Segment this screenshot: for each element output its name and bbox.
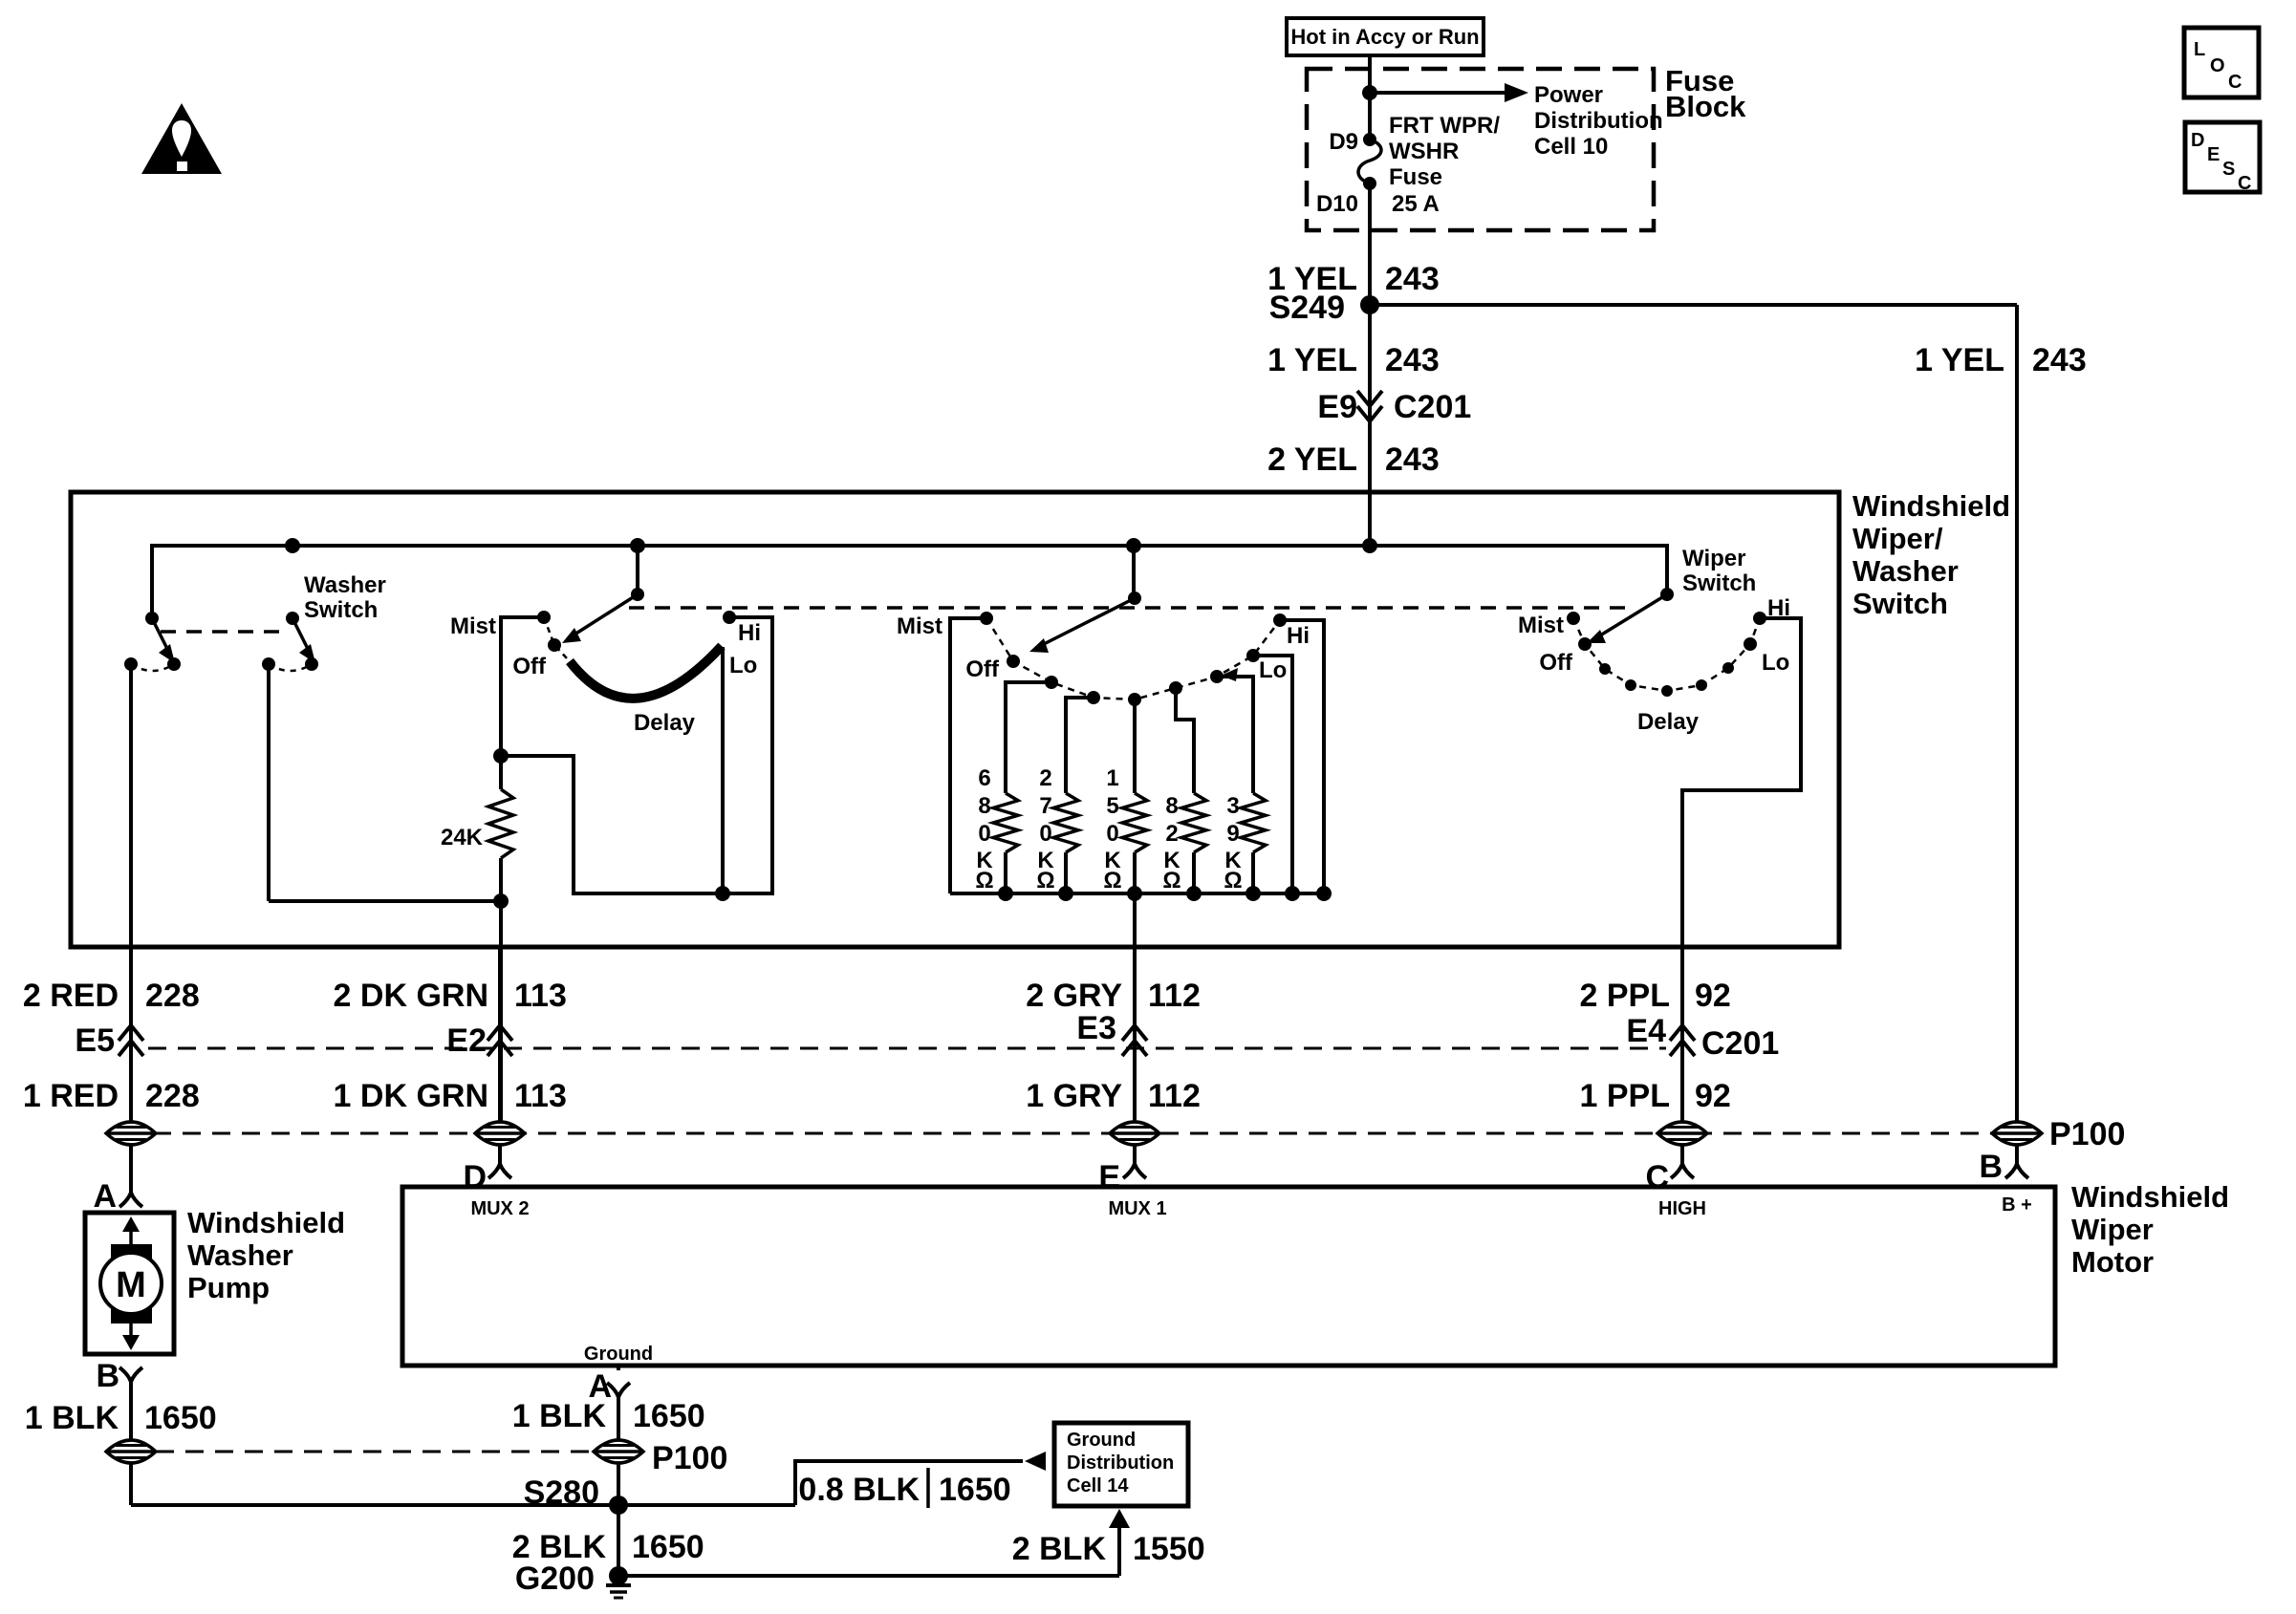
contact Mist <box>980 612 993 625</box>
svg-text:MUX 2: MUX 2 <box>470 1198 529 1219</box>
svg-text:Ω: Ω <box>975 868 993 893</box>
svg-text:2: 2 <box>1039 765 1051 791</box>
svg-text:Windshield: Windshield <box>2071 1180 2229 1214</box>
resistor 680K ohm <box>1045 676 1058 689</box>
svg-text:Washer: Washer <box>304 572 386 598</box>
svg-text:Ω: Ω <box>1103 868 1121 893</box>
svg-text:Lo: Lo <box>729 653 757 678</box>
node: bus tap supply entry <box>1362 538 1377 553</box>
node: junction in fuse block <box>1362 85 1377 100</box>
svg-text:HIGH: HIGH <box>1658 1198 1706 1219</box>
arrowhead into Ground Distribution Cell 14 <box>1025 1452 1046 1471</box>
svg-text:D: D <box>2191 130 2204 151</box>
svg-text:Pump: Pump <box>187 1271 270 1304</box>
wiper arm <box>574 594 638 635</box>
contact Lo <box>1246 649 1260 662</box>
svg-text:E3: E3 <box>1076 1010 1116 1046</box>
svg-text:Washer: Washer <box>187 1238 293 1272</box>
svg-text:Wiper/: Wiper/ <box>1852 522 1943 555</box>
svg-text:Off: Off <box>965 656 1000 682</box>
wire from Hot in Accy or Run down to fuse <box>1368 55 1372 140</box>
svg-text:D9: D9 <box>1329 129 1358 155</box>
svg-text:2 DK GRN: 2 DK GRN <box>334 978 488 1014</box>
svg-text:1 BLK: 1 BLK <box>512 1398 607 1434</box>
resistor 270K ohm <box>1087 691 1100 704</box>
svg-text:E: E <box>1098 1159 1120 1195</box>
svg-text:Mist: Mist <box>450 613 496 639</box>
svg-text:2 GRY: 2 GRY <box>1026 978 1122 1014</box>
svg-text:C201: C201 <box>1394 389 1471 425</box>
svg-text:Wiper: Wiper <box>1682 546 1745 571</box>
node: 24K bottom junction <box>493 893 509 909</box>
svg-text:Mist: Mist <box>1518 613 1564 638</box>
svg-text:Ground: Ground <box>584 1344 653 1365</box>
svg-text:6: 6 <box>978 765 990 791</box>
contact Off <box>548 638 561 652</box>
svg-text:Ground: Ground <box>1067 1430 1136 1451</box>
contact Off <box>1007 655 1020 668</box>
contact Mist <box>1567 612 1580 625</box>
svg-text:2 RED: 2 RED <box>23 978 119 1014</box>
connector C201 pin E9 (double chevron down) <box>1357 391 1382 406</box>
svg-text:G200: G200 <box>515 1560 595 1597</box>
svg-text:MUX 1: MUX 1 <box>1108 1198 1166 1219</box>
left wiper switch (delay band) <box>636 546 639 594</box>
svg-text:Wiper: Wiper <box>2071 1213 2154 1246</box>
svg-text:Hot in Accy or Run: Hot in Accy or Run <box>1290 25 1479 49</box>
fuse block dashed outline <box>1307 69 1654 230</box>
mechanical link between washer poles (dashed) <box>161 630 285 634</box>
svg-text:8: 8 <box>1165 793 1178 819</box>
contact Hi <box>723 611 736 624</box>
motor pin wires through P100 <box>498 947 502 1122</box>
svg-text:E5: E5 <box>75 1022 115 1059</box>
svg-text:2 PPL: 2 PPL <box>1580 978 1670 1014</box>
svg-text:Off: Off <box>512 654 547 679</box>
svg-text:Block: Block <box>1665 90 1746 123</box>
svg-text:Ω: Ω <box>1036 868 1054 893</box>
wire: pump B to P100 <box>129 1440 133 1505</box>
pump motor symbol <box>129 1222 133 1345</box>
svg-text:Power: Power <box>1534 82 1603 108</box>
dashed line C201 <box>148 1047 1666 1050</box>
connector P100 lens at x=1760 <box>1657 1122 1707 1145</box>
svg-text:E2: E2 <box>446 1022 487 1059</box>
wire: Mist to bottom rail <box>950 618 986 893</box>
washer switch pole 1 <box>145 612 159 625</box>
svg-text:S249: S249 <box>1269 290 1345 326</box>
LOC reference box <box>2184 28 2259 97</box>
svg-text:243: 243 <box>1385 441 1440 478</box>
contact Mist <box>537 611 551 624</box>
resistor 24K <box>488 789 513 858</box>
mechanical link dashed line across wiper switches <box>629 606 1627 610</box>
svg-text:5: 5 <box>1106 793 1118 819</box>
connector P100 lens at x=1187 <box>1110 1122 1159 1145</box>
svg-text:Delay: Delay <box>634 710 696 736</box>
svg-text:B: B <box>96 1358 119 1394</box>
svg-text:1 DK GRN: 1 DK GRN <box>334 1078 488 1114</box>
svg-text:Hi: Hi <box>738 620 761 646</box>
svg-text:0: 0 <box>1039 821 1051 847</box>
svg-text:1 PPL: 1 PPL <box>1580 1078 1670 1114</box>
svg-text:1: 1 <box>1106 765 1118 791</box>
svg-text:1 YEL: 1 YEL <box>1267 342 1357 378</box>
svg-text:Delay: Delay <box>1637 709 1700 735</box>
svg-text:Distribution: Distribution <box>1067 1453 1174 1474</box>
svg-text:112: 112 <box>1148 1078 1201 1114</box>
svg-text:3: 3 <box>1226 793 1239 819</box>
wire: motor ground A down <box>617 1366 620 1370</box>
wire: Lo contact down <box>721 647 725 893</box>
svg-text:1550: 1550 <box>1133 1531 1205 1567</box>
wire: Hi contact to HIGH output (2 PPL) <box>1682 618 1801 1122</box>
svg-text:A: A <box>93 1178 117 1215</box>
svg-text:E9: E9 <box>1317 389 1357 425</box>
svg-text:1 YEL: 1 YEL <box>1915 342 2004 378</box>
wire: internal supply bus <box>152 546 1667 618</box>
svg-text:2 YEL: 2 YEL <box>1267 441 1357 478</box>
component box: Windshield Wiper Motor <box>402 1187 2055 1366</box>
svg-text:Fuse: Fuse <box>1389 164 1442 190</box>
wiper arm <box>1044 598 1135 644</box>
svg-text:O: O <box>2210 55 2225 76</box>
svg-text:92: 92 <box>1695 1078 1731 1114</box>
connector P100 (bottom) <box>156 1451 593 1453</box>
svg-text:243: 243 <box>2032 342 2087 378</box>
node: bus tap washer switch 2 <box>285 538 300 553</box>
svg-text:Ω: Ω <box>1162 868 1180 893</box>
component box: Windshield Wiper/Washer Switch <box>71 492 1839 947</box>
MUX1 wiper switch <box>1132 546 1136 598</box>
svg-text:C: C <box>2238 173 2251 194</box>
svg-text:1 RED: 1 RED <box>23 1078 119 1114</box>
svg-text:0: 0 <box>1106 821 1118 847</box>
bottom rail of MUX1 resistors <box>950 892 1324 895</box>
wire: washer sw2 output to 24K bottom <box>267 664 271 901</box>
svg-text:1650: 1650 <box>632 1529 704 1565</box>
svg-text:113: 113 <box>514 1078 567 1114</box>
svg-text:8: 8 <box>978 793 990 819</box>
svg-text:1 BLK: 1 BLK <box>25 1400 119 1436</box>
svg-text:Distribution: Distribution <box>1534 108 1663 134</box>
svg-text:B +: B + <box>2002 1194 2032 1216</box>
wire: S249 to right branch <box>1370 303 2017 307</box>
node: bus tap MUX1 switch <box>1126 538 1141 553</box>
svg-text:M: M <box>116 1265 146 1305</box>
svg-text:Lo: Lo <box>1762 650 1789 676</box>
component box: Windshield Washer Pump <box>85 1213 174 1354</box>
node: Lo rail junction <box>715 886 730 901</box>
wiper arm <box>1600 594 1667 635</box>
wire: junction to Hi/Lo rail <box>501 617 772 893</box>
fuse FRT WPR/WSHR 25 A between pins D9 and D10 <box>1363 133 1376 146</box>
svg-text:P100: P100 <box>2049 1116 2125 1152</box>
svg-text:Lo: Lo <box>1259 657 1287 683</box>
svg-text:B: B <box>1979 1149 2003 1185</box>
svg-text:L: L <box>2194 39 2205 60</box>
svg-text:25 A: 25 A <box>1392 191 1440 217</box>
svg-text:E: E <box>2207 144 2220 165</box>
wire: washer sw1 output (2 RED) <box>129 664 133 1122</box>
wire: output 2 GRY <box>1133 893 1137 1122</box>
svg-text:1650: 1650 <box>144 1400 217 1436</box>
contact Lo <box>1744 637 1757 651</box>
dashed selector arc <box>986 618 1280 699</box>
svg-text:1650: 1650 <box>939 1472 1011 1508</box>
right wiper switch (HIGH) <box>1660 588 1674 601</box>
resistor 150K ohm <box>1128 693 1141 706</box>
resistor 39K ohm <box>1210 670 1224 683</box>
svg-text:Mist: Mist <box>897 613 942 639</box>
svg-text:C: C <box>1645 1159 1669 1195</box>
svg-text:P100: P100 <box>652 1440 727 1476</box>
arrow to Power Distribution Cell 10 <box>1370 91 1506 95</box>
box: Ground Distribution Cell 14 <box>1054 1423 1188 1506</box>
svg-text:2: 2 <box>1165 821 1178 847</box>
wire: fuse D10 down to windshield wiper/washer switch <box>1368 183 1372 546</box>
connector P100 row <box>153 1132 1992 1135</box>
svg-text:0: 0 <box>978 821 990 847</box>
svg-text:112: 112 <box>1148 978 1201 1014</box>
svg-text:C201: C201 <box>1701 1025 1779 1062</box>
svg-text:Switch: Switch <box>1682 570 1756 596</box>
svg-text:92: 92 <box>1695 978 1731 1014</box>
svg-text:E4: E4 <box>1626 1013 1666 1049</box>
wire: 2 BLK 1550 riser <box>1117 1528 1121 1576</box>
svg-text:Cell 14: Cell 14 <box>1067 1475 1129 1496</box>
svg-text:Ω: Ω <box>1224 868 1242 893</box>
svg-text:Switch: Switch <box>1852 587 1948 620</box>
svg-text:1 GRY: 1 GRY <box>1026 1078 1122 1114</box>
svg-text:Washer: Washer <box>1852 554 1959 588</box>
thick delay arc <box>570 646 722 699</box>
svg-text:Switch: Switch <box>304 597 378 623</box>
power source box: Hot in Accy or Run <box>1287 18 1484 55</box>
dashes Mist-Off-arc <box>544 617 568 659</box>
svg-text:D10: D10 <box>1316 191 1358 217</box>
svg-text:228: 228 <box>145 1078 200 1114</box>
svg-text:243: 243 <box>1385 342 1440 378</box>
connector P100 lens at x=137 <box>106 1122 156 1145</box>
svg-text:Cell 10: Cell 10 <box>1534 134 1608 160</box>
svg-text:228: 228 <box>145 978 200 1014</box>
wire: ground bus to Ground Distribution <box>131 1503 795 1507</box>
svg-text:FRT WPR/: FRT WPR/ <box>1389 113 1500 139</box>
resistor 82K ohm <box>1169 681 1182 695</box>
svg-text:C: C <box>2228 72 2242 93</box>
connector P100 lens at x=2110 <box>1992 1122 2042 1145</box>
connector P100 lens at x=523 <box>475 1122 525 1145</box>
svg-text:D: D <box>463 1159 487 1195</box>
DESC reference box <box>2185 122 2260 192</box>
node: 24K top junction <box>493 748 509 764</box>
wire: Mist contact to 24K resistor <box>501 617 544 789</box>
svg-text:Hi: Hi <box>1287 623 1310 649</box>
svg-text:Windshield: Windshield <box>1852 489 2010 523</box>
svg-text:Windshield: Windshield <box>187 1206 345 1239</box>
node: bus tap left wiper switch <box>630 538 645 553</box>
svg-text:243: 243 <box>1385 261 1440 297</box>
svg-text:1650: 1650 <box>633 1398 705 1434</box>
svg-text:2 BLK: 2 BLK <box>1012 1531 1107 1567</box>
warning triangle symbol <box>141 103 222 174</box>
svg-text:113: 113 <box>514 978 567 1014</box>
svg-text:24K: 24K <box>441 825 484 850</box>
contact Off <box>1578 637 1592 651</box>
dashed selector arc with delay dots <box>1573 618 1760 691</box>
off-page triangle to Ground Distribution <box>1109 1509 1130 1528</box>
svg-text:9: 9 <box>1226 821 1239 847</box>
contact Hi <box>1273 613 1287 627</box>
washer switch pole 2 <box>286 612 299 625</box>
contact Hi <box>1753 612 1766 625</box>
splice S249 <box>1360 295 1379 314</box>
svg-text:7: 7 <box>1039 793 1051 819</box>
wire: output 2 DK GRN <box>499 901 503 1122</box>
svg-text:WSHR: WSHR <box>1389 139 1459 164</box>
svg-text:S: S <box>2222 159 2235 180</box>
small arrowhead on arc near 39K <box>1221 668 1238 681</box>
svg-text:Motor: Motor <box>2071 1245 2154 1279</box>
svg-text:0.8 BLK: 0.8 BLK <box>798 1472 920 1508</box>
svg-text:Off: Off <box>1539 650 1573 676</box>
